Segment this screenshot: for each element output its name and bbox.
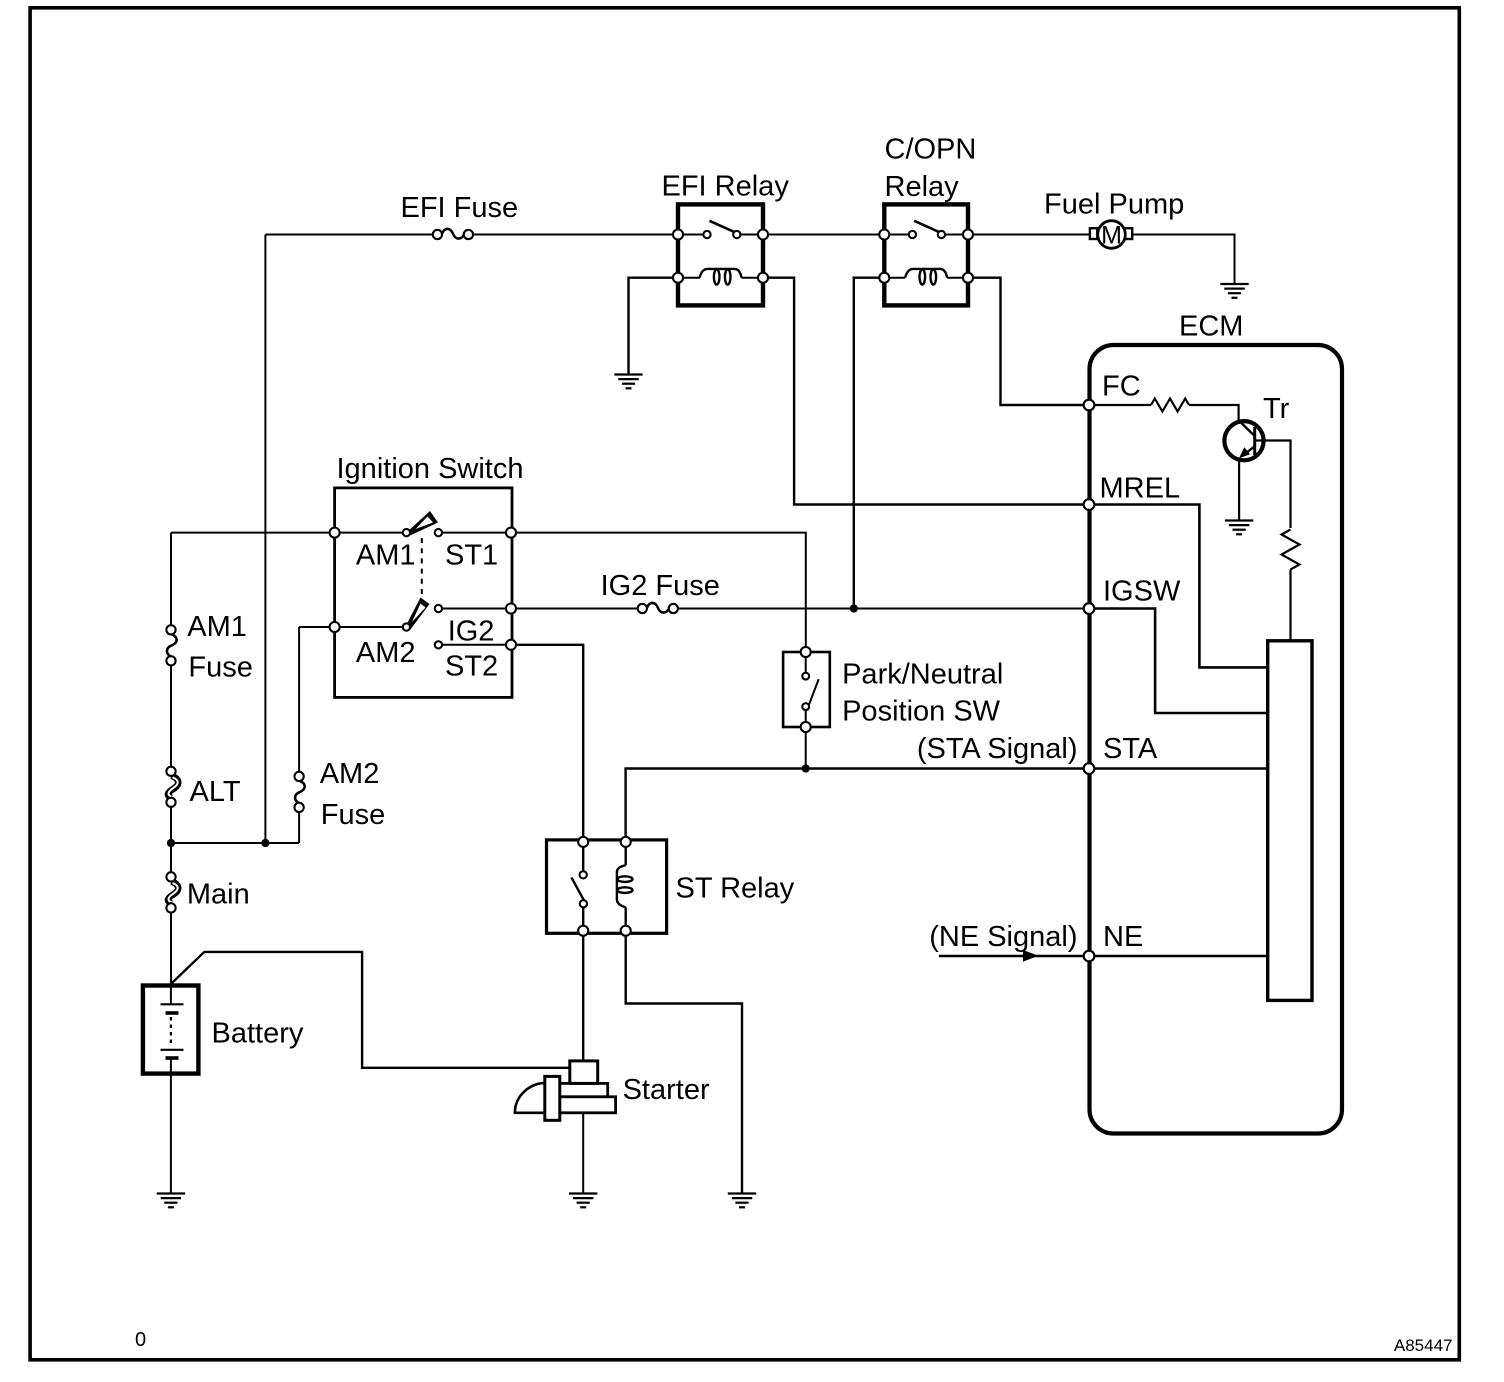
wire: AM1 fuse column top — [170, 533, 172, 630]
wire: fuel pump to ground — [1132, 235, 1234, 285]
ground ST relay coil — [728, 1194, 756, 1208]
svg-text:ST Relay: ST Relay — [676, 873, 795, 905]
junction dot STA row — [802, 765, 810, 773]
node ignition right ST1 — [506, 528, 516, 538]
wire: base to resistor — [1255, 441, 1291, 529]
fuse AM2 Fuse — [295, 772, 305, 812]
wire: AM1 row inside — [335, 532, 407, 534]
svg-text:NE: NE — [1103, 921, 1143, 953]
wire: resistor to transistor collector — [1189, 405, 1239, 422]
fuse IG2 Fuse — [638, 603, 678, 613]
wire: ST relay to starter — [582, 931, 584, 1061]
svg-text:(NE Signal): (NE Signal) — [929, 921, 1077, 953]
ECM box — [1090, 345, 1343, 1134]
relay C/OPN Relay — [879, 204, 973, 305]
relay ST Relay — [547, 837, 667, 936]
ground transistor — [1225, 521, 1253, 535]
node ignition left AM1 — [330, 528, 340, 538]
ignition switch box — [335, 488, 512, 698]
top layer: relay and switch node circles — [330, 230, 1095, 962]
pin NE — [1084, 951, 1095, 962]
ground fuel pump — [1220, 284, 1248, 298]
wire: C/OPN coil right to FC pin — [968, 278, 1089, 405]
svg-text:MREL: MREL — [1100, 473, 1181, 505]
wire: IG2 row to fuse — [511, 608, 642, 610]
svg-text:STA: STA — [1103, 733, 1158, 765]
svg-text:Fuse: Fuse — [321, 799, 385, 831]
svg-text:IGSW: IGSW — [1103, 576, 1181, 608]
svg-text:Tr: Tr — [1263, 393, 1290, 425]
wire: resistor to bus — [1289, 570, 1291, 641]
node ignition right IG2 — [506, 604, 516, 614]
svg-text:IG2: IG2 — [448, 616, 495, 648]
junction row — [171, 842, 299, 844]
ground EFI relay — [614, 375, 642, 389]
ground battery — [157, 1194, 185, 1208]
wire: EFI coil right to MREL pin — [763, 278, 1089, 505]
svg-text:Park/Neutral: Park/Neutral — [842, 659, 1003, 691]
contact ST2 — [435, 641, 442, 648]
resistor FC — [1151, 399, 1189, 412]
top layer: fuse symbols redrawn — [433, 229, 473, 239]
contact IG2 — [435, 605, 442, 612]
wire: STA internal to bus — [1089, 767, 1268, 769]
dashed link — [421, 538, 423, 599]
svg-text:Main: Main — [187, 879, 250, 911]
wire: C/OPN relay to fuel pump — [968, 234, 1090, 236]
wire: NE signal arrow — [939, 955, 1089, 958]
pin STA — [1084, 763, 1095, 774]
node ignition right ST2 — [506, 640, 516, 650]
wire: MREL internal to bus — [1089, 505, 1268, 668]
svg-text:Fuel Pump: Fuel Pump — [1044, 189, 1184, 221]
wire: STA row — [626, 769, 1089, 842]
fusible link ALT — [166, 767, 178, 807]
wire: NE internal to bus — [1089, 955, 1268, 957]
wire: between AM1 fuse and ALT — [170, 661, 172, 771]
svg-text:AM1: AM1 — [356, 540, 416, 572]
wire: battery to starter — [171, 952, 570, 1068]
wire: EFI fuse feed horizontal — [265, 234, 437, 236]
wire: park/neutral to STA row — [805, 727, 807, 769]
svg-text:A85447: A85447 — [1394, 1336, 1453, 1355]
starter — [515, 1061, 616, 1120]
fuse EFI Fuse — [433, 229, 473, 239]
svg-text:EFI Relay: EFI Relay — [662, 171, 790, 203]
wire: ST1 to park/neutral switch — [511, 533, 806, 652]
svg-text:C/OPN: C/OPN — [885, 134, 977, 166]
wire: C/OPN coil left to IGSW line — [854, 278, 885, 609]
junction dot C/OPN coil feed — [850, 605, 858, 613]
wire: ST2 inside — [438, 644, 511, 646]
relay EFI Relay — [673, 204, 768, 305]
wire: ST relay coil to ground — [626, 931, 742, 1194]
svg-text:ST2: ST2 — [445, 650, 498, 682]
wire: EFI fuse to EFI relay — [468, 234, 678, 236]
svg-text:Battery: Battery — [212, 1018, 304, 1050]
switch lever AM2 — [406, 598, 430, 631]
svg-text:ECM: ECM — [1179, 311, 1243, 343]
wire: AM2 fuse to junction — [298, 808, 300, 843]
switch lever AM1 — [407, 511, 439, 536]
svg-text:Relay: Relay — [885, 171, 960, 203]
svg-text:AM1: AM1 — [187, 611, 247, 643]
wire: AM2 row inside — [335, 626, 407, 628]
svg-text:FC: FC — [1102, 371, 1141, 403]
pin FC — [1084, 400, 1095, 411]
wire: IG2 inside — [438, 608, 511, 610]
svg-text:(STA Signal): (STA Signal) — [917, 733, 1078, 765]
svg-text:AM2: AM2 — [356, 637, 416, 669]
wire: AM1 feed row — [171, 532, 335, 534]
svg-text:Starter: Starter — [623, 1074, 710, 1106]
wire: AM2 stub — [299, 626, 335, 628]
wire: emitter to ground — [1238, 459, 1240, 521]
svg-text:AM2: AM2 — [320, 758, 380, 790]
wire: FC lead — [1089, 404, 1151, 406]
svg-text:Position SW: Position SW — [842, 696, 1001, 728]
fuse AM1 Fuse — [166, 625, 176, 665]
svg-text:Fuse: Fuse — [188, 652, 252, 684]
svg-text:Ignition Switch: Ignition Switch — [337, 453, 524, 485]
resistor base pulldown — [1282, 530, 1300, 570]
wire: IGSW internal to bus — [1089, 609, 1268, 714]
wire: battery to ground — [170, 1074, 172, 1194]
wire: left feed vertical — [264, 235, 266, 844]
wire: AM2 fuse column — [298, 627, 300, 776]
battery — [143, 986, 199, 1074]
top layer: junction dots — [167, 605, 858, 848]
pin MREL — [1084, 499, 1095, 510]
wire: Main to battery — [170, 907, 172, 986]
transistor Tr — [1224, 421, 1263, 460]
contact AM2 — [403, 623, 410, 630]
svg-text:EFI Fuse: EFI Fuse — [401, 192, 519, 224]
svg-text:0: 0 — [135, 1329, 146, 1351]
svg-text:IG2 Fuse: IG2 Fuse — [601, 570, 720, 602]
wire: ST2 to ST relay — [511, 645, 583, 842]
pin IGSW — [1084, 603, 1095, 614]
wire: starter to ground — [582, 1113, 584, 1194]
wire: EFI relay coil to ground — [629, 278, 679, 375]
park/neutral position switch — [783, 647, 830, 732]
junction dot EFI feed — [261, 839, 269, 847]
internal bus bar — [1268, 641, 1312, 1001]
node ignition left AM2 — [330, 622, 340, 632]
motor fuel pump — [1090, 221, 1132, 250]
svg-text:ST1: ST1 — [445, 540, 498, 572]
svg-text:ALT: ALT — [190, 776, 241, 808]
wire: ALT to junction — [170, 802, 172, 877]
svg-text:M: M — [1101, 222, 1122, 250]
contact AM1 — [403, 529, 410, 536]
contact ST1 — [435, 529, 442, 536]
ground starter — [569, 1194, 597, 1208]
junction dot left — [167, 839, 175, 847]
wire: IG2 fuse to IGSW pin — [672, 608, 1090, 610]
wire: EFI relay to C/OPN relay — [763, 234, 884, 236]
fusible link Main — [166, 872, 178, 912]
